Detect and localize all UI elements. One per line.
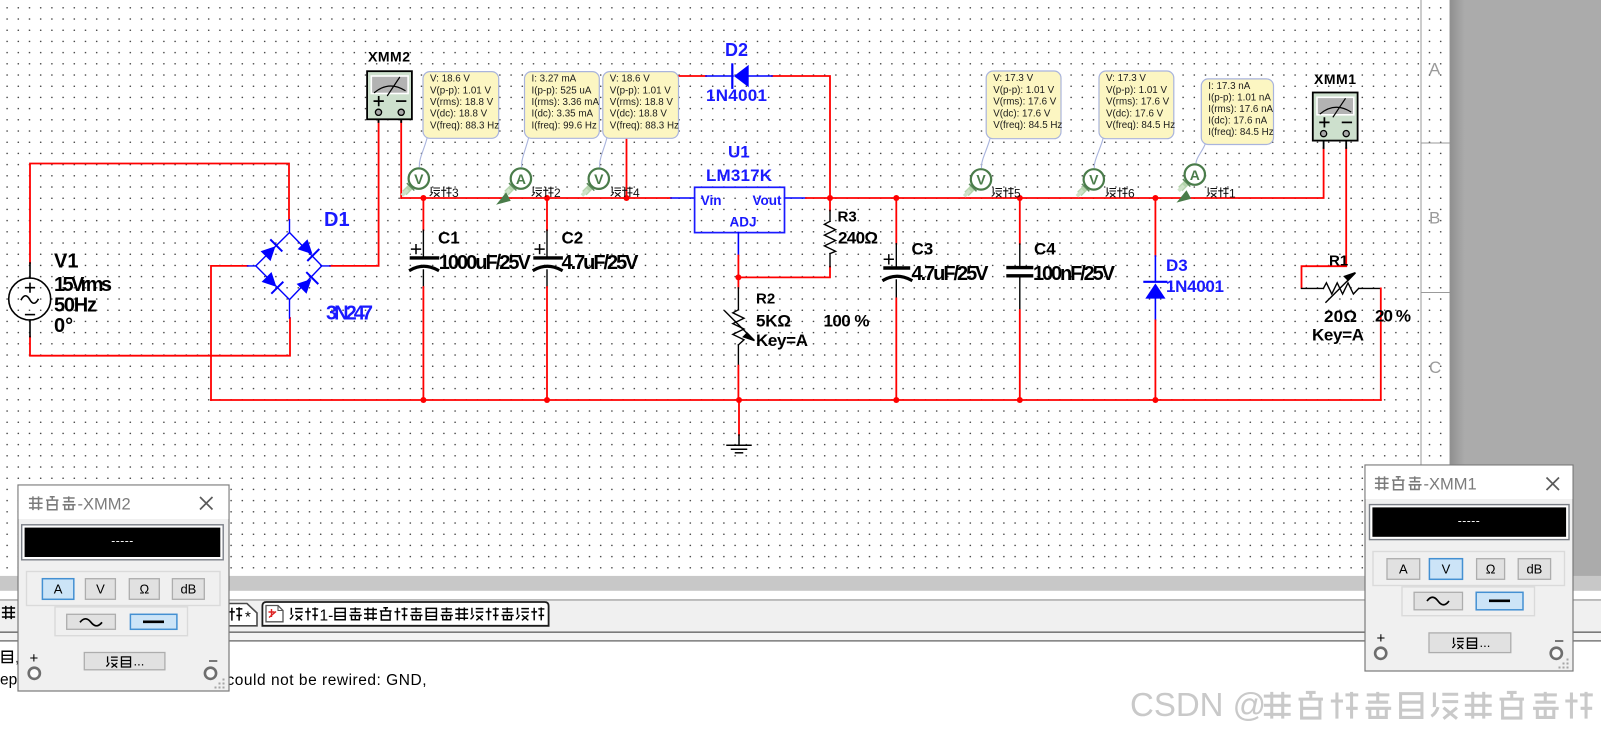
dialog XMM2 DC button (active): [130, 614, 177, 629]
sheet border line with zones: [1421, 0, 1450, 576]
svg-text:dB: dB: [180, 582, 196, 597]
schematic sheet background with dot grid: [0, 0, 1450, 576]
svg-text:-XMM1: -XMM1: [1424, 476, 1477, 494]
svg-text:Vout: Vout: [753, 193, 782, 208]
svg-text:50Hz: 50Hz: [54, 295, 97, 317]
capacitor C2: [534, 198, 561, 400]
wire V1 bottom to bridge bottom: [30, 318, 290, 356]
label probe 3 (tanzhen3): [430, 186, 459, 200]
dialog XMM1 button dB: [1518, 559, 1550, 580]
regulator U1 LM317K box: [695, 187, 785, 232]
active design tab: [262, 602, 548, 626]
svg-text:CSDN @: CSDN @: [1130, 686, 1266, 723]
dialog XMM2 button A (active): [42, 579, 73, 600]
svg-text:1: 1: [1229, 186, 1236, 200]
node D3 bottom: [1152, 397, 1158, 403]
probe box for probe 2 (I readings): [525, 72, 600, 139]
dialog XMM2 settings button (shezhi...): [84, 653, 165, 670]
svg-text:...: ...: [134, 654, 145, 669]
svg-text:D2: D2: [725, 40, 748, 60]
svg-text:R2: R2: [756, 290, 775, 307]
svg-text:1-: 1-: [320, 607, 334, 624]
wire U1 ADJ stub (blue): [737, 233, 739, 256]
node ADJ junction: [735, 274, 741, 280]
tab strip background: [0, 601, 1601, 632]
svg-text:Ω: Ω: [1486, 562, 1496, 577]
junction dots: [420, 195, 1158, 403]
multimeter XMM1 icon: [1313, 93, 1358, 149]
svg-text:-----: -----: [1458, 514, 1480, 528]
svg-text:V(dc): 18.8 V: V(dc): 18.8 V: [430, 109, 488, 120]
label probe 1 (tanzhen1): [1207, 186, 1236, 200]
left docker panel caption (xiangmu): [2, 606, 30, 619]
probe 4 voltage (V circle): [583, 169, 609, 195]
diode top-left (points up-right): [260, 240, 281, 261]
probe box for probe 4 (V readings): [603, 72, 679, 139]
diode D2 symbol: [732, 64, 748, 87]
svg-text:V: 18.6 V: V: 18.6 V: [610, 74, 650, 85]
probe box for probe 1 (I readings): [1201, 79, 1273, 145]
inactive tab (partially hidden): [150, 604, 257, 626]
svg-text:V(dc): 18.8 V: V(dc): 18.8 V: [610, 109, 668, 120]
svg-text:V(freq): 88.3 Hz: V(freq): 88.3 Hz: [430, 120, 499, 131]
probe box leader to probe 4: [600, 138, 607, 167]
svg-text:C3: C3: [912, 240, 934, 259]
svg-text:240Ω: 240Ω: [838, 229, 878, 248]
svg-text:V: V: [976, 172, 986, 188]
wire bottom ground rail: [211, 399, 1381, 401]
node C1 top: [420, 195, 426, 201]
svg-text:3: 3: [452, 186, 459, 200]
R2 wiper arrow: [725, 311, 748, 334]
wire D2 anode stub (blue): [706, 75, 733, 77]
multimeter dialog XMM1: [1365, 465, 1573, 671]
dialog XMM2 button dB: [172, 579, 204, 600]
svg-text:XMM1: XMM1: [1314, 71, 1356, 87]
svg-text:Vin: Vin: [701, 193, 722, 208]
diode bottom-right (points up-right): [296, 273, 317, 294]
svg-text:V: V: [414, 171, 424, 187]
tab strip lower separator: [0, 632, 1601, 633]
diode D3: [1144, 198, 1166, 400]
node C3 top: [893, 195, 899, 201]
svg-text:V: 17.3 V: V: 17.3 V: [1106, 73, 1146, 84]
svg-text:V(rms): 18.8 V: V(rms): 18.8 V: [430, 97, 494, 108]
svg-text:V(freq): 88.3 Hz: V(freq): 88.3 Hz: [610, 120, 679, 131]
dialog XMM1 DC button (active): [1476, 592, 1523, 610]
wire D2 cathode stub (blue): [748, 75, 772, 77]
resistor R3: [824, 198, 835, 267]
node C3 bottom: [893, 397, 899, 403]
wire U1 Vout pin stub (blue): [785, 197, 807, 199]
svg-text:1000uF/25V: 1000uF/25V: [439, 252, 532, 274]
capacitor C4: [1008, 198, 1032, 400]
svg-text:4.7uF/25V: 4.7uF/25V: [562, 252, 640, 274]
svg-text:XMM2: XMM2: [368, 49, 410, 65]
dialog XMM2 signal group frame: [55, 607, 188, 636]
svg-text:1N4001: 1N4001: [1166, 277, 1224, 296]
probe 6 voltage (V circle): [1078, 169, 1104, 195]
svg-text:4.7uF/25V: 4.7uF/25V: [912, 263, 990, 285]
svg-text:I: 17.3 nA: I: 17.3 nA: [1208, 81, 1250, 92]
dialog XMM2 AC button: [67, 614, 116, 629]
node D2 left: [624, 195, 630, 201]
label probe 2 (tanzhen2): [532, 186, 561, 200]
node C1 bottom: [420, 397, 426, 403]
dialog XMM2 mode group frame: [27, 572, 221, 606]
svg-text:C: C: [1429, 358, 1441, 377]
svg-text:V1: V1: [54, 251, 78, 273]
svg-text:V(rms): 18.8 V: V(rms): 18.8 V: [610, 97, 674, 108]
ground: [727, 400, 751, 453]
tab document icon: [266, 606, 283, 622]
node C2 bottom: [544, 397, 550, 403]
wire bridge left to ground rail left leg: [211, 266, 248, 400]
gray area outside sheet (right): [1450, 0, 1601, 576]
svg-text:V: 17.3 V: V: 17.3 V: [993, 73, 1033, 84]
wire R3 bottom to ADJ junction: [738, 267, 830, 278]
dialog XMM1 settings button (shezhi...): [1429, 633, 1511, 653]
dialog XMM2 left terminal: [29, 668, 40, 679]
wire bridge right to XMM2 plus: [330, 121, 379, 266]
probe box leader to probe 5: [981, 139, 990, 168]
svg-text:20 %: 20 %: [1375, 307, 1411, 326]
node D3 top: [1152, 195, 1158, 201]
dialog XMM1 button V (active): [1429, 559, 1462, 580]
svg-text:Key=A: Key=A: [756, 331, 808, 350]
label probe 6 (tanzhen6): [1106, 186, 1135, 200]
dialog XMM2 button ohm: [129, 579, 159, 600]
svg-text:4: 4: [633, 186, 640, 200]
results pane fragment text (ri,): [2, 650, 19, 667]
multimeter XMM2 icon: [367, 71, 412, 122]
svg-text:6: 6: [1128, 186, 1135, 200]
wire U1 Vin pin stub (blue): [671, 197, 695, 199]
svg-text:I(freq): 84.5 Hz: I(freq): 84.5 Hz: [1208, 127, 1273, 138]
dialog XMM1 title (wanyongbiao-XMM1): [1375, 476, 1477, 494]
CSDN watermark text: [1130, 686, 1593, 723]
wire top rail right segment: [806, 148, 1324, 198]
probe box leader to probe 6: [1094, 139, 1103, 168]
horizontal scrollbar band: [0, 576, 1601, 591]
svg-text:A: A: [516, 171, 526, 187]
svg-text:V: V: [1089, 172, 1099, 188]
node C4 bottom: [1017, 397, 1023, 403]
diode bottom-left (points down-right): [261, 272, 282, 293]
multimeter dialog XMM2: [18, 485, 229, 691]
dialog XMM1 display: [1370, 505, 1570, 540]
svg-text:*: *: [245, 609, 251, 626]
probe 3 voltage (V circle): [403, 168, 429, 194]
svg-text:dB: dB: [1526, 562, 1542, 577]
tab title text (sheji1-...): [290, 607, 545, 624]
dialog XMM1 mode group frame: [1373, 552, 1565, 586]
node C4 top: [1017, 195, 1023, 201]
node ground rail center: [736, 397, 742, 403]
label probe 5 (tanzhen5): [992, 186, 1021, 200]
dialog XMM1 left terminal: [1375, 648, 1386, 659]
svg-text:I(p-p): 1.01 nA: I(p-p): 1.01 nA: [1208, 93, 1271, 104]
wire XMM2 minus down to rail: [400, 121, 402, 198]
svg-text:V: V: [96, 582, 105, 597]
svg-text:V(dc): 17.6 V: V(dc): 17.6 V: [1106, 108, 1164, 119]
node C2 top: [544, 195, 550, 201]
svg-text:I(rms): 17.6 nA: I(rms): 17.6 nA: [1208, 104, 1273, 115]
probe box leader to probe 3: [419, 138, 427, 167]
probe box for probe 5 (V readings): [986, 71, 1062, 139]
dialog XMM2 title (wanyongbiao-XMM2): [29, 496, 131, 514]
probe box leader to probe 2: [522, 138, 529, 167]
svg-text:V(p-p): 1.01 V: V(p-p): 1.01 V: [993, 85, 1054, 96]
svg-text:C4: C4: [1034, 240, 1056, 259]
bridge rectifier D1: [248, 220, 331, 318]
wire ADJ to R2 junction: [737, 256, 739, 278]
dialog XMM1 AC button: [1414, 592, 1462, 610]
dialog XMM2 button V: [85, 579, 115, 600]
dialog XMM2 resize grip: [215, 679, 225, 689]
svg-text:I(dc): 17.6 nA: I(dc): 17.6 nA: [1208, 116, 1267, 127]
svg-text:I(dc): 3.35 mA: I(dc): 3.35 mA: [532, 109, 594, 120]
potentiometer R1 with XMM1 wiring: [1302, 148, 1381, 400]
svg-text:V(p-p): 1.01 V: V(p-p): 1.01 V: [610, 85, 671, 96]
svg-text:V(p-p): 1.01 V: V(p-p): 1.01 V: [430, 85, 491, 96]
probe box leader to probe 1: [1196, 145, 1205, 163]
svg-text:V(rms): 17.6 V: V(rms): 17.6 V: [1106, 97, 1170, 108]
svg-text:A: A: [1190, 167, 1200, 183]
potentiometer R2: [725, 277, 755, 400]
svg-text:100nF/25V: 100nF/25V: [1033, 263, 1116, 285]
svg-text:V(rms): 17.6 V: V(rms): 17.6 V: [993, 97, 1057, 108]
svg-text:I(freq): 99.6 Hz: I(freq): 99.6 Hz: [532, 120, 597, 131]
wire top rail left segment: [401, 197, 671, 199]
svg-text:R3: R3: [838, 209, 857, 226]
svg-text:100 %: 100 %: [824, 311, 870, 330]
workspace bottom edge line: [0, 599, 1601, 601]
svg-text:-----: -----: [111, 534, 133, 548]
probe 2 current (A circle): [497, 168, 531, 203]
dialog XMM1 button A: [1387, 559, 1420, 580]
svg-text:I(rms): 3.36 mA: I(rms): 3.36 mA: [532, 97, 600, 108]
probe box for probe 3 (V readings): [423, 72, 499, 139]
svg-text:R1: R1: [1329, 253, 1348, 270]
dialog XMM1 right terminal: [1551, 648, 1562, 659]
svg-text:5: 5: [1014, 186, 1021, 200]
node Vout/R3: [827, 195, 833, 201]
svg-text:-XMM2: -XMM2: [78, 496, 131, 514]
R1 wiper arrow: [1326, 279, 1349, 302]
svg-text:0°: 0°: [54, 315, 73, 337]
svg-text:D1: D1: [324, 209, 350, 231]
svg-text:V(p-p): 1.01 V: V(p-p): 1.01 V: [1106, 85, 1167, 96]
svg-text:15Vrms: 15Vrms: [54, 274, 112, 296]
svg-text:V: V: [594, 171, 604, 187]
svg-text:Key=A: Key=A: [1312, 326, 1364, 345]
probe 5 voltage (V circle): [965, 169, 991, 195]
svg-text:+: +: [1377, 630, 1386, 647]
svg-text:A: A: [1399, 562, 1408, 577]
svg-text:Ω: Ω: [139, 582, 149, 597]
svg-text:A: A: [1429, 60, 1441, 79]
dialog XMM2 right terminal: [205, 668, 216, 679]
svg-text:3N247: 3N247: [326, 303, 373, 325]
dialog XMM1 signal group frame: [1402, 587, 1535, 616]
svg-text:U1: U1: [728, 143, 750, 162]
svg-text:5KΩ: 5KΩ: [756, 311, 791, 330]
svg-text:I: 3.27 mA: I: 3.27 mA: [532, 74, 577, 85]
svg-text:D3: D3: [1166, 256, 1188, 275]
dialog XMM1 button ohm: [1477, 559, 1505, 580]
svg-text:B: B: [1429, 209, 1440, 228]
probe 1 current (A circle): [1178, 164, 1205, 201]
dialog XMM2 close button: [200, 497, 213, 510]
dialog XMM2 display: [22, 525, 224, 560]
dialog XMM1 close button: [1547, 478, 1560, 491]
svg-text:I(p-p): 525 uA: I(p-p): 525 uA: [532, 85, 592, 96]
svg-text:1N4001: 1N4001: [706, 86, 767, 105]
svg-text:C1: C1: [438, 228, 460, 247]
svg-text:V(freq): 84.5 Hz: V(freq): 84.5 Hz: [1106, 120, 1175, 131]
svg-text:20Ω: 20Ω: [1324, 307, 1357, 326]
diode top-right (points down-right): [297, 239, 318, 260]
svg-text:V: V: [1442, 562, 1451, 577]
svg-text:...: ...: [1480, 635, 1491, 650]
svg-text:V: 18.6 V: V: 18.6 V: [430, 74, 470, 85]
svg-text:V(freq): 84.5 Hz: V(freq): 84.5 Hz: [993, 120, 1062, 131]
AC source V1: [9, 263, 51, 337]
label probe 4 (tanzhen4): [611, 186, 640, 200]
capacitor C3: [884, 198, 911, 400]
svg-text:C2: C2: [562, 228, 584, 247]
svg-text:V(dc): 17.6 V: V(dc): 17.6 V: [993, 108, 1051, 119]
capacitor C1: [411, 198, 438, 400]
svg-text:could not be rewired: GND,: could not be rewired: GND,: [227, 672, 427, 689]
svg-text:LM317K: LM317K: [706, 166, 773, 185]
dialog XMM1 resize grip: [1559, 659, 1569, 669]
wire V1 top to bridge top (red loop): [30, 164, 289, 264]
svg-text:+: +: [30, 650, 39, 667]
svg-text:A: A: [54, 582, 63, 597]
svg-text:2: 2: [554, 186, 561, 200]
probe box for probe 6 (V readings): [1099, 71, 1175, 139]
svg-text:ADJ: ADJ: [730, 215, 757, 230]
wire D2 bypass loop: [627, 76, 831, 198]
